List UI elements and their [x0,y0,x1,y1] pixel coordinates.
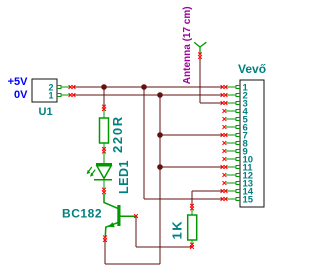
wire 1K top vertical up [191,191,193,205]
wire +5V to Vevo pin15 [144,198,223,200]
junction dot node 0V pin7 branch [157,132,163,138]
LED1 anode lead [103,152,105,163]
resistor R1 220R top lead [103,109,105,118]
wire 0V rail from U1 pin1 to Vevo pin2 [73,94,223,96]
IC Vevo pin 7 [236,134,240,137]
junction dot node +5V/220R [101,84,107,90]
antenna symbol [194,42,206,54]
wire +5V vertical drop at x=144 [143,87,145,199]
U1 pin 2 symbol [57,86,61,89]
IC Vevo pin 2 [236,94,240,97]
transistor Q1 emitter connection marks [103,236,107,240]
wire 0V vertical drop at x=160 [159,95,161,264]
resistor R2 1K bottom connection marks [190,243,194,247]
IC Vevo pin 15 [236,198,240,201]
svg-text:LED1: LED1 [117,160,131,194]
resistor R2 1K top connection marks [190,204,194,208]
wire +5V branch down to 220R [103,87,105,106]
svg-text:15: 15 [243,195,254,206]
svg-text:220R: 220R [110,115,125,153]
U1 pin 2 stub [61,86,70,88]
junction dot node 0V drop [157,92,163,98]
LED1 triangle [97,166,111,179]
U1 pin 1 connection marks [69,93,73,97]
resistor R1 220R bottom lead [103,143,105,149]
IC Vevo body [240,80,264,207]
resistor R1 220R bottom connection marks [102,147,106,151]
resistor R1 220R top connection marks [102,105,106,109]
wire antenna vertical [199,58,201,103]
resistor R2 1K body [188,215,197,240]
connector U1 body [32,79,57,102]
svg-text:1: 1 [48,90,53,100]
wire emitter vertical [104,241,106,265]
wire antenna to Vevo pin3 [200,102,223,104]
wire 0V branch to Vevo pin7 [160,134,223,136]
svg-text:BC182: BC182 [62,207,102,221]
svg-text:0V: 0V [14,89,28,101]
wire 0V bottom horizontal to emitter [105,263,160,265]
resistor R2 1K top lead [191,209,193,215]
LED1 light arrow 2 [92,170,95,175]
IC Vevo pin 6 [236,126,240,129]
svg-text:+5V: +5V [8,76,29,88]
wire +5V rail from U1 pin2 to Vevo pin1 [73,86,223,88]
IC Vevo pin 1 [236,86,240,89]
resistor R2 1K bottom lead [191,240,193,244]
transistor Q1 BC182 collector lead [104,194,118,209]
LED1 cathode bar [94,179,112,181]
transistor Q1 BC182 base bar [117,205,120,226]
IC Vevo pin 14 [236,190,240,193]
transistor Q1 BC182 emitter arrow [108,222,115,227]
IC Vevo pin 8 [236,142,240,145]
svg-text:Antenna (17 cm): Antenna (17 cm) [182,6,193,84]
U1 pin 1 stub [61,94,70,96]
IC Vevo pin 10 [236,158,240,161]
wire 0V branch to Vevo pin11 [160,166,223,168]
U1 pin 2 connection marks [69,85,73,89]
transistor Q1 BC182 base lead [121,215,136,217]
LED1 light arrow 1 [88,167,91,172]
transistor Q1 base connection mark [134,214,138,218]
IC Vevo pin 5 [236,118,240,121]
antenna connection marks [198,52,202,56]
wire base vertical down [135,217,137,248]
junction dot node +5V drop [141,84,147,90]
IC Vevo pin 13 [236,182,240,185]
wire 1K net to Vevo pin14 [192,190,223,192]
svg-text:1K: 1K [170,220,185,240]
IC Vevo pin 12 [236,174,240,177]
svg-text:U1: U1 [39,106,53,118]
resistor R1 220R body [100,118,109,143]
junction dot node 0V pin11 branch [157,164,163,170]
IC Vevo pin 4 [236,110,240,113]
U1 pin 1 symbol [57,94,61,97]
wire base to 1K bottom [136,246,192,248]
IC Vevo pin 3 [236,102,240,105]
IC Vevo pin 11 [236,166,240,169]
LED1 cathode connection marks [102,188,106,192]
transistor Q1 BC182 emitter lead [105,222,120,237]
IC Vevo pin 9 [236,150,240,153]
LED1 anode bar [96,163,112,166]
LED1 cathode lead [103,180,105,189]
svg-text:Vevő: Vevő [238,62,266,76]
